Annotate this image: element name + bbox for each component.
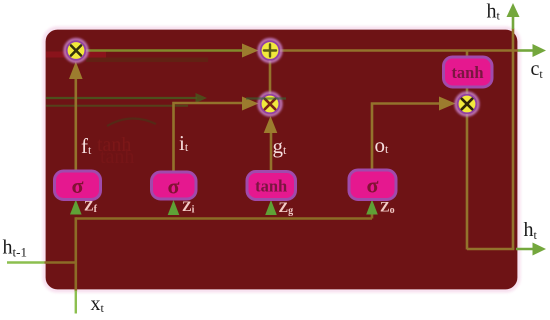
svg-text:ct: ct: [531, 58, 544, 81]
svg-text:tanh: tanh: [100, 146, 134, 168]
svg-text:ht: ht: [487, 1, 501, 23]
svg-text:ht: ht: [524, 219, 538, 242]
svg-text:σ: σ: [367, 173, 379, 198]
svg-text:σ: σ: [168, 174, 180, 199]
svg-text:σ: σ: [72, 173, 84, 198]
svg-text:ht-1: ht-1: [3, 237, 27, 260]
svg-text:tanh: tanh: [451, 63, 483, 82]
svg-text:xt: xt: [91, 293, 105, 315]
svg-text:tanh: tanh: [255, 177, 287, 196]
